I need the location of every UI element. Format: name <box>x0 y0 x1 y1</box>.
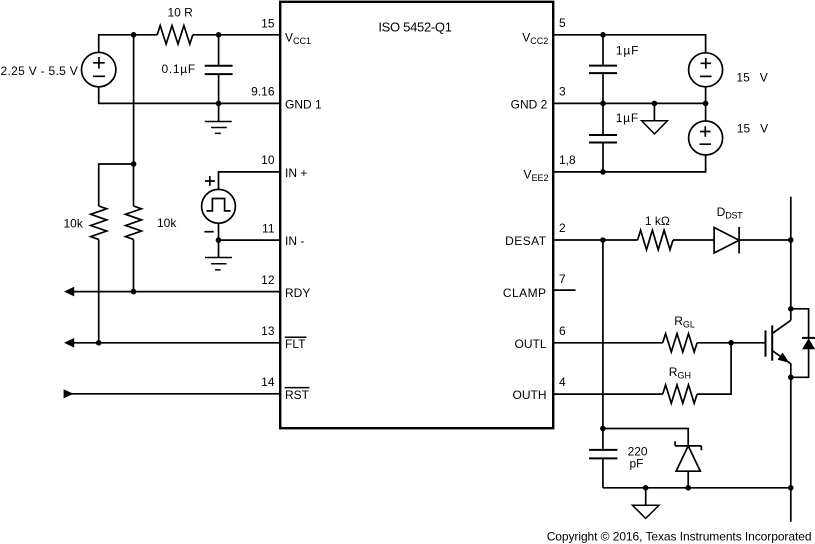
wire emitter rail down <box>790 377 792 521</box>
zener diode D3 <box>675 441 701 450</box>
voltage source V4 15V bottom <box>689 121 723 155</box>
IC U1 ISO 5452-Q1 box <box>280 2 553 428</box>
diode D1 DST <box>714 228 739 254</box>
wire R3 bottom to RDY <box>133 239 135 291</box>
wire R1 to pin VCC1 <box>193 34 280 36</box>
svg-text:GND 2: GND 2 <box>511 98 548 112</box>
svg-text:7: 7 <box>559 272 566 286</box>
node junction RDY/R3 <box>131 289 137 295</box>
wire VEE2 rail <box>553 155 705 172</box>
node junction IN- / ground <box>216 237 222 243</box>
wire FLT <box>66 342 280 344</box>
node junction GND2/gnd <box>652 101 658 107</box>
wire CLAMP stub <box>553 289 575 291</box>
wire collector rail top <box>790 197 792 321</box>
wire RDY <box>66 291 280 293</box>
wire V3 bottom to GND2 <box>705 87 707 104</box>
capacitor C3 1uF bottom <box>602 103 604 171</box>
transistor Q1 body bar <box>771 325 773 360</box>
node junction gnd tap <box>643 485 649 491</box>
wire bottom rail <box>603 487 791 489</box>
resistor R1 10R <box>157 26 193 45</box>
svg-text:OUTL: OUTL <box>514 337 546 351</box>
capacitor C1 0.1uF <box>218 35 220 104</box>
wire V1 bottom to GND1 <box>99 87 281 104</box>
node junction collector <box>788 306 794 312</box>
node junction GND2/cap <box>600 101 606 107</box>
arrow FLT left <box>64 338 74 348</box>
svg-text:10k: 10k <box>157 216 177 230</box>
svg-text:4: 4 <box>559 375 566 389</box>
node junction rail bottom <box>788 485 794 491</box>
capacitor C4 220pF <box>602 429 604 488</box>
svg-text:13: 13 <box>261 324 275 338</box>
ground G3 triangle <box>653 103 655 120</box>
svg-text:1,8: 1,8 <box>559 153 576 167</box>
node junction VCC1/branch <box>131 32 137 38</box>
node junction emitter <box>788 375 794 381</box>
resistor R6 RGH <box>663 385 697 403</box>
capacitor C2 1uF top <box>602 35 604 104</box>
pulse source V2 <box>202 189 236 223</box>
node junction cap top <box>216 32 222 38</box>
wire GND2 rail <box>553 102 705 104</box>
wire DESAT to R4 <box>553 239 637 241</box>
svg-text:2.25 V - 5.5 V: 2.25 V - 5.5 V <box>1 64 79 78</box>
wire VCC2 rail <box>553 35 705 53</box>
svg-text:12: 12 <box>261 273 275 287</box>
wire RST <box>64 393 280 395</box>
wire OUTH to RGH <box>553 393 663 395</box>
wire RGH up to gate node <box>697 343 731 394</box>
svg-text:9.16: 9.16 <box>251 85 275 99</box>
wire freewheel branch top <box>791 309 809 338</box>
wire V1 top to VCC1 rail <box>99 35 158 53</box>
transistor Q1 IGBT gate bar <box>765 330 767 356</box>
svg-text:Copyright © 2016, Texas Instru: Copyright © 2016, Texas Instruments Inco… <box>547 530 812 544</box>
svg-text:10 R: 10 R <box>168 6 194 20</box>
wire RGL to gate <box>697 342 765 344</box>
wire V2 bottom to IN- <box>219 223 281 240</box>
wire V4 top to GND2 <box>705 103 707 121</box>
wire V2 top to IN+ <box>219 172 281 190</box>
resistor R2 10k left <box>91 206 107 239</box>
svg-text:14: 14 <box>261 375 275 389</box>
wire OUTL to RGL <box>553 342 663 344</box>
wire R2 bottom to FLT <box>98 239 100 342</box>
wire tap jog left <box>99 164 134 206</box>
ground G2 <box>218 240 220 257</box>
svg-text:3: 3 <box>559 84 566 98</box>
wire Q1 collector lead <box>772 320 791 333</box>
node junction VCC2/cap <box>600 32 606 38</box>
svg-text:2: 2 <box>559 221 566 235</box>
svg-text:15 V: 15 V <box>736 70 767 84</box>
wire Q1 emitter lead <box>772 351 791 378</box>
svg-text:RDY: RDY <box>285 286 310 300</box>
voltage source V1 2.25V-5.5V <box>82 52 116 86</box>
ground G1 <box>218 103 220 121</box>
svg-text:10k: 10k <box>64 217 84 231</box>
svg-text:0.1µF: 0.1µF <box>162 62 196 76</box>
svg-text:FLT: FLT <box>285 337 306 351</box>
resistor R4 1k <box>638 230 673 250</box>
svg-text:6: 6 <box>559 324 566 338</box>
svg-text:ISO 5452-Q1: ISO 5452-Q1 <box>378 20 451 35</box>
arrow RST right <box>64 389 74 398</box>
arrow Q1 emitter <box>778 353 790 363</box>
svg-text:1 kΩ: 1 kΩ <box>645 214 670 228</box>
svg-text:IN +: IN + <box>285 166 307 180</box>
svg-text:CLAMP: CLAMP <box>503 286 547 300</box>
diode D2 freewheel <box>802 337 815 339</box>
ground G4 triangle <box>645 488 647 505</box>
node junction VEE2/cap <box>600 169 606 175</box>
svg-text:5: 5 <box>559 16 566 30</box>
wire tap down right branch <box>133 164 135 206</box>
node junction 220pF top <box>600 426 606 432</box>
svg-text:11: 11 <box>262 221 275 235</box>
wire R4 to diode <box>673 239 714 241</box>
wire branch down to resistor tap <box>133 35 135 164</box>
wire diode to rail <box>739 239 791 241</box>
svg-text:10: 10 <box>261 153 275 167</box>
svg-text:pF: pF <box>629 457 643 471</box>
wire freewheel branch bottom <box>791 349 809 378</box>
svg-text:IN -: IN - <box>285 234 304 248</box>
node junction 10k tap <box>131 161 137 167</box>
resistor R5 RGL <box>663 334 697 352</box>
node junction DESAT branch <box>600 237 606 243</box>
svg-text:DESAT: DESAT <box>505 234 547 248</box>
svg-text:1µF: 1µF <box>616 111 639 125</box>
svg-text:15: 15 <box>261 16 275 30</box>
wire DESAT vertical down <box>602 240 604 429</box>
node junction zener bottom <box>685 485 691 491</box>
node junction GND2/source <box>703 101 709 107</box>
arrow RDY left <box>64 287 74 297</box>
node junction rail/DESAT <box>788 237 794 243</box>
svg-text:15 V: 15 V <box>737 121 768 135</box>
svg-text:GND 1: GND 1 <box>285 98 322 112</box>
resistor R3 10k right <box>126 206 142 239</box>
label minus <box>204 231 213 233</box>
voltage source V3 15V top <box>689 53 723 87</box>
node junction FLT/R2 <box>96 340 102 346</box>
svg-text:1µF: 1µF <box>616 43 639 57</box>
wire to zener top <box>603 429 688 446</box>
node junction gate/RGH <box>728 340 734 346</box>
label plus <box>205 176 215 186</box>
svg-text:RST: RST <box>285 388 310 402</box>
svg-text:OUTH: OUTH <box>513 388 547 402</box>
node junction GND1/cap <box>216 101 222 107</box>
